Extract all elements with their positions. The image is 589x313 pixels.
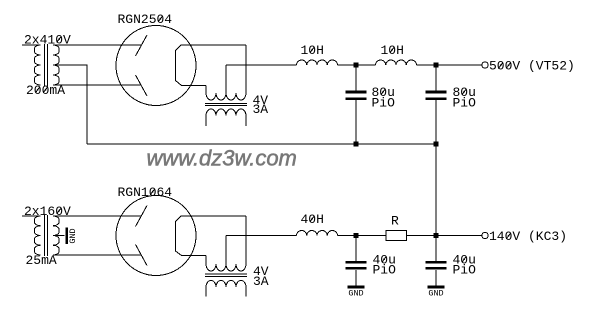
wire interconnect x436 between sections <box>435 144 437 236</box>
V2 anode plate top <box>136 206 148 227</box>
transformer T1 2x410V/200mA <box>22 44 59 87</box>
node junction (436,65) <box>434 63 439 68</box>
wire T3 secondary bottom to V2 anode <box>53 254 142 256</box>
V1 anode plate top <box>136 35 148 56</box>
ground bar (T3 center tap) <box>65 227 68 244</box>
transformer T4 heater 4V 3A <box>205 264 247 296</box>
capacitor C4 40u PiO <box>426 236 447 286</box>
inductor L2 10H <box>376 60 417 65</box>
T4 primary winding <box>206 280 246 296</box>
svg-text:R: R <box>391 214 399 229</box>
inductor L1 10H <box>297 60 338 65</box>
node junction (356,235.5) <box>354 233 359 238</box>
wire T3 secondary top to V2 anode <box>53 215 142 217</box>
T2 core <box>205 103 247 105</box>
capacitor C1 80u PiO <box>346 65 367 144</box>
slashed-zero ticks <box>35 16 510 262</box>
V2 filament electrode <box>176 216 247 256</box>
wire T3 center tap to ground <box>53 235 65 237</box>
svg-text:140V (KC3): 140V (KC3) <box>489 229 567 244</box>
svg-text:500V (VT52): 500V (VT52) <box>489 59 575 74</box>
svg-text:PiO: PiO <box>372 96 396 111</box>
T3 core <box>45 215 48 256</box>
T3 secondary winding <box>53 216 59 255</box>
resistor R <box>386 231 407 241</box>
node junction (436,144) <box>434 142 439 147</box>
wire V2 filament center tap <box>225 236 227 265</box>
svg-text:25mA: 25mA <box>26 253 57 268</box>
svg-text:RGN1064: RGN1064 <box>118 185 173 200</box>
svg-text:PiO: PiO <box>373 262 397 277</box>
T4 secondary winding <box>206 264 246 271</box>
svg-text:RGN2504: RGN2504 <box>118 12 173 27</box>
terminal 500V output <box>482 62 488 68</box>
wire L2 to output <box>417 64 483 66</box>
wire R to output <box>407 235 483 237</box>
svg-text:GND: GND <box>68 228 78 243</box>
svg-text:3A: 3A <box>253 274 269 289</box>
wire L1 to L2 <box>338 64 376 66</box>
tube V2 RGN1064 envelope <box>116 196 196 276</box>
T2 secondary winding <box>206 93 246 100</box>
T4 core <box>205 274 247 276</box>
wire B+ rail to L3 <box>226 235 297 237</box>
wire bottom return rail (top section) <box>87 143 436 145</box>
T1 core <box>45 44 48 87</box>
wire V2 filament bottom lead <box>205 256 207 265</box>
capacitor C3 40u PiO <box>346 236 367 286</box>
svg-text:PiO: PiO <box>453 262 477 277</box>
svg-text:www.dz3w.com: www.dz3w.com <box>147 146 297 171</box>
wire V2 filament top lead <box>245 216 247 264</box>
ground bar (C3) <box>348 286 365 289</box>
capacitor C2 80u PiO <box>426 65 447 144</box>
svg-text:2x160V: 2x160V <box>24 204 71 219</box>
T1 secondary winding <box>53 45 59 85</box>
node junction (436,235.5) <box>434 233 439 238</box>
wire V1 filament center tap <box>225 65 227 93</box>
node junction (356,65) <box>354 63 359 68</box>
T1 primary winding <box>22 45 41 85</box>
svg-text:PiO: PiO <box>453 96 477 111</box>
svg-text:3A: 3A <box>253 102 269 117</box>
V1 anode plate bottom <box>136 75 148 96</box>
svg-text:GND: GND <box>428 289 443 299</box>
wire T1 center tap <box>53 65 87 144</box>
wire B+ rail to L1 <box>226 64 297 66</box>
T2 primary winding <box>206 109 246 126</box>
wire T1 secondary bottom to V1 anode <box>53 84 142 86</box>
terminal 140V output <box>482 232 488 238</box>
ground bar (C4) <box>428 286 445 289</box>
V1 filament electrode <box>176 45 247 86</box>
transformer T3 2x160V/25mA <box>22 215 59 256</box>
transformer T2 heater 4V 3A <box>205 93 247 126</box>
wire V1 filament top lead <box>245 45 247 93</box>
T3 primary winding <box>22 216 41 255</box>
tube V1 RGN2504 envelope <box>116 26 196 106</box>
svg-text:GND: GND <box>348 289 363 299</box>
inductor L3 40H <box>297 231 338 236</box>
wire V1 filament bottom lead <box>205 86 207 94</box>
V2 anode plate bottom <box>136 245 148 266</box>
wire L3 to R <box>338 235 387 237</box>
node junction (356,144) <box>354 142 359 147</box>
wire T1 secondary top to V1 anode <box>53 44 142 46</box>
